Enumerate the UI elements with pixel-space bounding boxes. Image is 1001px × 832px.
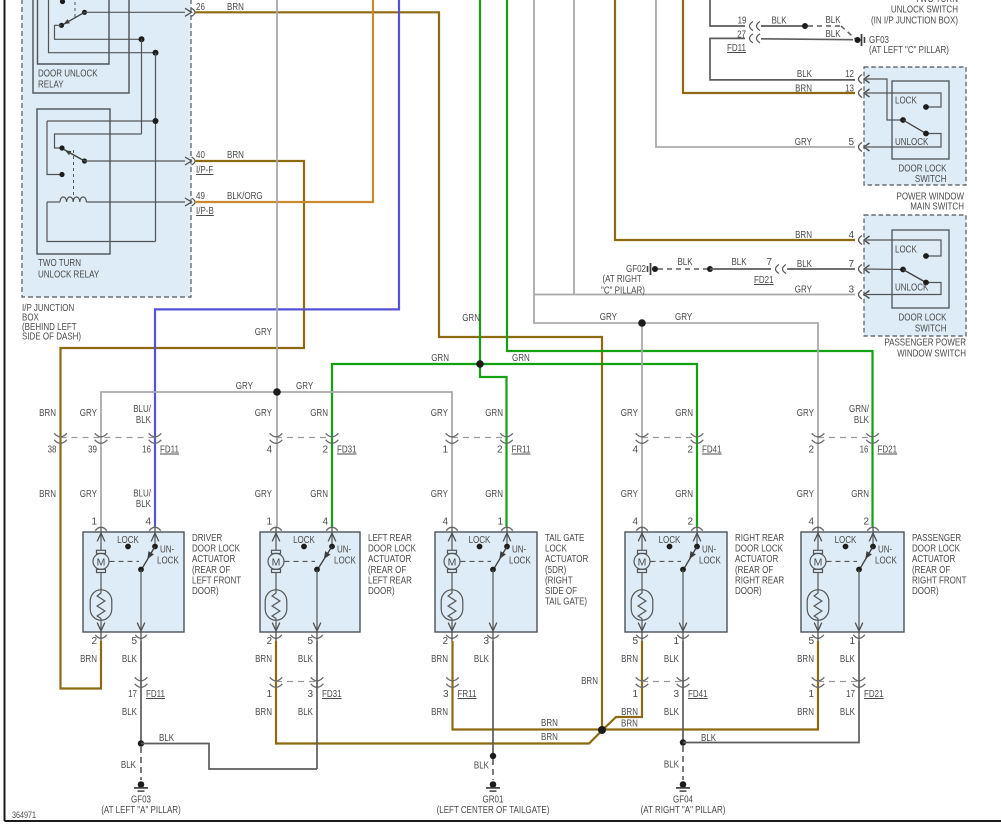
svg-text:(AT RIGHT "A" PILLAR): (AT RIGHT "A" PILLAR) — [641, 805, 726, 816]
svg-text:BRN: BRN — [795, 230, 812, 241]
svg-text:BLK: BLK — [825, 15, 840, 26]
svg-text:TAIL GATE: TAIL GATE — [545, 533, 585, 544]
svg-text:BLK: BLK — [298, 654, 313, 665]
svg-text:BRN: BRN — [80, 654, 97, 665]
svg-text:DOOR LOCK: DOOR LOCK — [899, 164, 947, 175]
svg-text:27: 27 — [737, 30, 746, 41]
svg-text:BLK: BLK — [771, 16, 786, 27]
svg-text:3: 3 — [848, 285, 854, 296]
svg-text:DOOR LOCK: DOOR LOCK — [899, 313, 947, 324]
svg-text:1: 1 — [632, 689, 638, 700]
svg-text:(IN I/P JUNCTION BOX): (IN I/P JUNCTION BOX) — [871, 16, 958, 27]
svg-text:PASSENGER POWER: PASSENGER POWER — [884, 338, 966, 349]
svg-text:BLK: BLK — [122, 654, 137, 665]
svg-text:BLK: BLK — [701, 733, 716, 744]
svg-text:FD31: FD31 — [337, 445, 357, 456]
svg-text:4: 4 — [322, 517, 328, 528]
svg-text:1: 1 — [808, 689, 814, 700]
svg-text:4: 4 — [266, 445, 272, 456]
svg-text:GRY: GRY — [797, 489, 814, 500]
svg-text:DOOR): DOOR) — [192, 586, 219, 597]
svg-text:GRY: GRY — [795, 285, 812, 296]
svg-text:BLK: BLK — [159, 733, 174, 744]
svg-text:M: M — [814, 557, 823, 569]
svg-text:GRN: GRN — [675, 408, 693, 419]
svg-text:2: 2 — [808, 445, 814, 456]
svg-text:3: 3 — [307, 689, 313, 700]
svg-text:GRN: GRN — [851, 489, 869, 500]
svg-text:RIGHT REAR: RIGHT REAR — [735, 533, 784, 544]
svg-text:7: 7 — [848, 259, 854, 270]
svg-text:GRY: GRY — [431, 489, 448, 500]
svg-text:GRN: GRN — [675, 489, 693, 500]
svg-text:I/P-F: I/P-F — [196, 165, 213, 176]
svg-text:FD41: FD41 — [688, 689, 708, 700]
svg-text:LOCK: LOCK — [157, 556, 179, 567]
svg-text:3: 3 — [443, 689, 449, 700]
svg-text:TAIL GATE): TAIL GATE) — [545, 597, 587, 608]
svg-text:2: 2 — [91, 636, 97, 647]
svg-text:GRN: GRN — [485, 489, 503, 500]
svg-text:ACTUATOR: ACTUATOR — [735, 554, 778, 565]
svg-text:UN-: UN- — [702, 545, 716, 556]
svg-text:BLK: BLK — [840, 654, 855, 665]
svg-text:SIDE OF DASH): SIDE OF DASH) — [22, 332, 81, 343]
svg-text:4: 4 — [632, 445, 638, 456]
svg-text:LEFT REAR: LEFT REAR — [368, 575, 412, 586]
svg-text:GR01: GR01 — [483, 795, 504, 806]
svg-text:BLK/ORG: BLK/ORG — [227, 191, 263, 202]
svg-text:UN-: UN- — [160, 545, 174, 556]
svg-text:DOOR LOCK: DOOR LOCK — [192, 544, 240, 555]
svg-text:ACTUATOR: ACTUATOR — [912, 554, 955, 565]
svg-text:GRY: GRY — [795, 137, 812, 148]
svg-text:5: 5 — [131, 636, 137, 647]
svg-text:BLK: BLK — [840, 707, 855, 718]
svg-text:UNLOCK: UNLOCK — [895, 137, 929, 148]
svg-text:FD31: FD31 — [322, 689, 342, 700]
svg-text:GRY: GRY — [621, 408, 638, 419]
svg-text:BRN: BRN — [797, 654, 814, 665]
svg-text:BLK: BLK — [731, 257, 746, 268]
svg-text:BLK: BLK — [664, 707, 679, 718]
svg-text:364971: 364971 — [12, 810, 36, 820]
svg-text:GRY: GRY — [80, 489, 97, 500]
svg-text:3: 3 — [673, 689, 679, 700]
svg-text:BLK: BLK — [121, 760, 136, 771]
svg-text:19: 19 — [738, 16, 747, 27]
svg-text:RIGHT REAR: RIGHT REAR — [735, 575, 784, 586]
svg-text:FD21: FD21 — [864, 689, 884, 700]
svg-text:4: 4 — [848, 230, 854, 241]
svg-text:1: 1 — [849, 636, 855, 647]
svg-text:(REAR OF: (REAR OF — [735, 565, 773, 576]
svg-text:5: 5 — [848, 137, 854, 148]
svg-text:BLU/: BLU/ — [133, 404, 151, 415]
svg-text:7: 7 — [766, 257, 772, 268]
svg-text:GRY: GRY — [675, 312, 692, 323]
svg-text:GRY: GRY — [296, 381, 313, 392]
svg-text:GRN: GRN — [310, 489, 328, 500]
svg-text:GRY: GRY — [621, 489, 638, 500]
svg-text:BRN: BRN — [431, 707, 448, 718]
svg-text:49: 49 — [196, 191, 205, 202]
svg-text:BRN: BRN — [621, 707, 638, 718]
svg-text:RELAY: RELAY — [38, 80, 64, 91]
svg-text:(AT RIGHT: (AT RIGHT — [603, 274, 642, 285]
svg-text:I/P-B: I/P-B — [196, 206, 214, 217]
svg-text:SWITCH: SWITCH — [915, 324, 947, 335]
svg-text:BRN: BRN — [255, 654, 272, 665]
svg-text:5: 5 — [307, 636, 313, 647]
svg-text:GRY: GRY — [80, 408, 97, 419]
svg-text:(RIGHT: (RIGHT — [545, 575, 573, 586]
svg-text:GRY: GRY — [236, 381, 253, 392]
svg-text:WINDOW SWITCH: WINDOW SWITCH — [897, 349, 966, 360]
svg-text:16: 16 — [860, 445, 869, 456]
svg-text:BLK: BLK — [677, 257, 692, 268]
svg-text:BLK: BLK — [664, 654, 679, 665]
svg-text:FD21: FD21 — [878, 445, 898, 456]
svg-text:GRN/: GRN/ — [849, 404, 869, 415]
svg-text:FD21: FD21 — [754, 275, 774, 286]
svg-text:(REAR OF: (REAR OF — [192, 565, 230, 576]
svg-text:BRN: BRN — [795, 84, 812, 95]
svg-text:BLK: BLK — [854, 415, 869, 426]
svg-text:UNLOCK: UNLOCK — [895, 283, 929, 294]
svg-text:BRN: BRN — [39, 489, 56, 500]
svg-text:BRN: BRN — [431, 654, 448, 665]
svg-text:(REAR OF: (REAR OF — [912, 565, 950, 576]
svg-text:1: 1 — [91, 517, 97, 528]
svg-text:(AT LEFT "C" PILLAR): (AT LEFT "C" PILLAR) — [869, 45, 949, 56]
svg-text:GRN: GRN — [310, 408, 328, 419]
svg-text:5: 5 — [632, 636, 638, 647]
svg-text:BLU/: BLU/ — [133, 489, 151, 500]
svg-text:1: 1 — [497, 517, 503, 528]
svg-text:13: 13 — [845, 84, 854, 95]
svg-text:GRY: GRY — [797, 408, 814, 419]
svg-text:ACTUATOR: ACTUATOR — [545, 554, 588, 565]
svg-text:LOCK: LOCK — [895, 96, 917, 107]
svg-text:2: 2 — [687, 517, 693, 528]
svg-text:2: 2 — [322, 445, 328, 456]
svg-text:BRN: BRN — [541, 732, 558, 743]
svg-text:(LEFT CENTER OF TAILGATE): (LEFT CENTER OF TAILGATE) — [437, 805, 550, 816]
svg-text:M: M — [272, 557, 281, 569]
svg-text:17: 17 — [846, 689, 855, 700]
svg-text:UNLOCK RELAY: UNLOCK RELAY — [38, 270, 99, 281]
svg-text:GRN: GRN — [485, 408, 503, 419]
svg-text:DRIVER: DRIVER — [192, 533, 222, 544]
svg-text:DOOR LOCK: DOOR LOCK — [368, 544, 416, 555]
svg-text:1: 1 — [442, 445, 448, 456]
svg-text:(REAR OF: (REAR OF — [368, 565, 406, 576]
svg-text:GF04: GF04 — [673, 795, 693, 806]
svg-text:DOOR LOCK: DOOR LOCK — [912, 544, 960, 555]
svg-text:UN-: UN- — [878, 545, 892, 556]
svg-text:BRN: BRN — [227, 150, 244, 161]
svg-text:BLK: BLK — [797, 69, 812, 80]
svg-text:FR11: FR11 — [512, 445, 531, 456]
svg-text:DOOR LOCK: DOOR LOCK — [735, 544, 783, 555]
svg-text:TWO TURN: TWO TURN — [38, 258, 81, 269]
svg-text:BLK: BLK — [136, 415, 151, 426]
svg-text:DOOR): DOOR) — [912, 586, 939, 597]
svg-text:4: 4 — [442, 517, 448, 528]
svg-text:(5DR): (5DR) — [545, 565, 566, 576]
svg-text:LOCK: LOCK — [699, 556, 721, 567]
svg-text:2: 2 — [266, 636, 272, 647]
svg-text:M: M — [97, 557, 106, 569]
svg-text:GRY: GRY — [255, 408, 272, 419]
svg-text:FD11: FD11 — [727, 43, 746, 54]
svg-text:BLK: BLK — [664, 760, 679, 771]
svg-text:LOCK: LOCK — [509, 556, 531, 567]
svg-text:39: 39 — [88, 445, 97, 456]
svg-text:BRN: BRN — [797, 707, 814, 718]
svg-text:GRN: GRN — [431, 353, 449, 364]
svg-text:DOOR UNLOCK: DOOR UNLOCK — [38, 69, 98, 80]
svg-text:2: 2 — [863, 517, 869, 528]
svg-text:BRN: BRN — [581, 676, 598, 687]
svg-text:FR11: FR11 — [458, 689, 477, 700]
svg-text:ACTUATOR: ACTUATOR — [368, 554, 411, 565]
svg-text:(AT LEFT "A" PILLAR): (AT LEFT "A" PILLAR) — [101, 805, 181, 816]
svg-text:BRN: BRN — [541, 718, 558, 729]
svg-text:17: 17 — [128, 689, 137, 700]
svg-text:1: 1 — [673, 636, 679, 647]
svg-text:BRN: BRN — [39, 408, 56, 419]
svg-text:2: 2 — [687, 445, 693, 456]
svg-text:3: 3 — [483, 636, 489, 647]
svg-text:DOOR): DOOR) — [368, 586, 395, 597]
svg-text:4: 4 — [808, 517, 814, 528]
svg-text:MAIN SWITCH: MAIN SWITCH — [910, 202, 964, 213]
svg-text:1: 1 — [266, 689, 272, 700]
svg-text:BLK: BLK — [474, 654, 489, 665]
svg-text:SIDE OF: SIDE OF — [545, 586, 577, 597]
svg-text:BRN: BRN — [255, 707, 272, 718]
svg-text:BLK: BLK — [136, 499, 151, 510]
svg-text:PASSENGER: PASSENGER — [912, 533, 961, 544]
svg-text:LEFT REAR: LEFT REAR — [368, 533, 412, 544]
svg-text:FD41: FD41 — [702, 445, 722, 456]
svg-text:BLK: BLK — [122, 707, 137, 718]
svg-text:GRN: GRN — [512, 353, 530, 364]
svg-text:LOCK: LOCK — [875, 556, 897, 567]
svg-text:2: 2 — [497, 445, 503, 456]
svg-text:BLK: BLK — [298, 707, 313, 718]
svg-text:38: 38 — [48, 445, 57, 456]
svg-text:GRY: GRY — [255, 489, 272, 500]
svg-text:"C" PILLAR): "C" PILLAR) — [601, 286, 645, 297]
svg-text:GRN: GRN — [462, 313, 480, 324]
svg-text:UN-: UN- — [512, 545, 526, 556]
svg-text:4: 4 — [145, 517, 151, 528]
svg-text:BLK: BLK — [825, 29, 840, 40]
svg-text:2: 2 — [442, 636, 448, 647]
svg-text:GRY: GRY — [600, 312, 617, 323]
svg-text:RIGHT FRONT: RIGHT FRONT — [912, 575, 967, 586]
svg-text:12: 12 — [845, 69, 854, 80]
svg-text:M: M — [448, 557, 457, 569]
svg-text:ACTUATOR: ACTUATOR — [192, 554, 235, 565]
svg-text:UNLOCK SWITCH: UNLOCK SWITCH — [891, 5, 958, 16]
svg-text:UN-: UN- — [337, 545, 351, 556]
svg-text:BLK: BLK — [797, 259, 812, 270]
svg-text:SWITCH: SWITCH — [915, 174, 947, 185]
svg-text:GRY: GRY — [431, 408, 448, 419]
svg-text:40: 40 — [196, 150, 205, 161]
svg-text:BLK: BLK — [474, 761, 489, 772]
svg-text:DOOR): DOOR) — [735, 586, 762, 597]
svg-text:GRY: GRY — [255, 327, 272, 338]
svg-text:5: 5 — [808, 636, 814, 647]
svg-text:GF03: GF03 — [131, 795, 151, 806]
svg-text:LOCK: LOCK — [334, 556, 356, 567]
svg-text:FD11: FD11 — [160, 445, 179, 456]
svg-text:LOCK: LOCK — [545, 544, 567, 555]
svg-text:M: M — [638, 557, 647, 569]
svg-text:LEFT FRONT: LEFT FRONT — [192, 575, 241, 586]
svg-text:LOCK: LOCK — [895, 245, 917, 256]
svg-text:FD11: FD11 — [146, 689, 165, 700]
svg-text:BRN: BRN — [621, 719, 638, 730]
svg-text:BRN: BRN — [621, 654, 638, 665]
svg-text:4: 4 — [632, 517, 638, 528]
svg-text:1: 1 — [266, 517, 272, 528]
svg-text:16: 16 — [142, 445, 151, 456]
